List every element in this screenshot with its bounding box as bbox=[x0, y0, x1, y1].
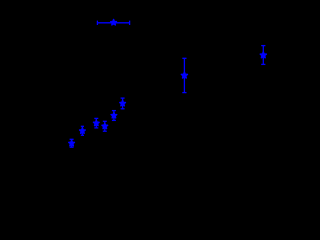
data point P7 marker (blue star) bbox=[102, 123, 108, 128]
data point P3 marker (blue star) bbox=[260, 52, 266, 58]
data point P2 marker (blue star) bbox=[181, 72, 187, 78]
data point P4 marker (blue star) bbox=[69, 140, 75, 145]
data point P8 marker (blue star) bbox=[111, 113, 117, 118]
error bar P2 (vertical): line with end caps bbox=[182, 58, 186, 92]
data point P5 marker (blue star) bbox=[80, 128, 86, 133]
error bar P7 (vertical): line with end caps bbox=[103, 121, 107, 131]
data point P9 marker (blue star) bbox=[120, 100, 126, 105]
data point P1 marker (blue star) bbox=[111, 20, 117, 25]
error bar P5 (vertical): line with end caps bbox=[81, 126, 84, 135]
error bar P3 (vertical): line with end caps bbox=[261, 46, 265, 65]
error bar P9 (vertical): line with end caps bbox=[121, 98, 125, 109]
error bar P8 (vertical): line with end caps bbox=[112, 111, 116, 121]
error bar P6 (vertical): line with end caps bbox=[94, 118, 98, 128]
error bar P4 (vertical): line with end caps bbox=[70, 139, 74, 147]
error bar P1 (horizontal): line with end caps bbox=[97, 21, 129, 25]
data point P6 marker (blue star) bbox=[93, 120, 99, 125]
